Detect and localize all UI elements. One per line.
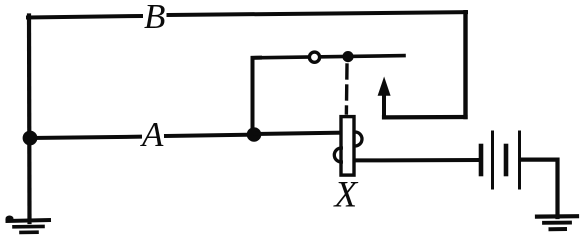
dashed link to jack X: [345, 65, 349, 113]
wire A left segment: [31, 137, 140, 138]
wire B right vertical: [463, 12, 467, 117]
wire B top-right segment: [169, 12, 467, 15]
battery plate long 1: [491, 132, 494, 188]
battery plate long 2: [518, 132, 521, 188]
wire A right segment to jack X: [255, 133, 342, 134]
node on wire A at left riser: [23, 131, 38, 146]
svg-text:B: B: [144, 0, 165, 36]
jack X right contact bump: [355, 132, 362, 146]
wire jack X to battery: [355, 158, 479, 162]
ground right: [537, 216, 577, 229]
arrow head: [378, 77, 391, 96]
battery plate short 1: [479, 146, 484, 174]
jack X body: [341, 117, 354, 176]
battery plate short 2: [504, 146, 509, 174]
riser wire from junction to switch arm: [253, 58, 261, 133]
svg-text:A: A: [140, 115, 164, 154]
open contact O: [309, 52, 319, 62]
switch arm wire: [253, 56, 405, 58]
junction node on wire A: [247, 127, 262, 142]
wire battery to right ground: [521, 160, 558, 217]
return wire bottom horizontal: [384, 115, 466, 120]
ground left: [6, 216, 50, 233]
wire B left vertical: [27, 16, 32, 223]
wire B top-left segment: [28, 16, 141, 18]
contact dot: [342, 51, 353, 62]
jack X left contact bump: [334, 148, 341, 162]
wire A middle segment: [166, 135, 253, 136]
svg-text:X: X: [333, 175, 359, 216]
arrow shaft: [382, 93, 386, 117]
